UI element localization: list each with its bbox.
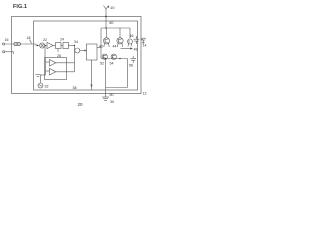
wire bottom loop horizontal: [106, 87, 128, 89]
ground GND1: [102, 97, 109, 100]
wire top bus: [101, 27, 130, 29]
filter F2: [63, 43, 69, 49]
reference source V1: [38, 75, 46, 88]
svg-text:56: 56: [129, 64, 133, 68]
svg-text:52: 52: [100, 62, 104, 66]
amplifier A1: [45, 42, 56, 48]
svg-text:44: 44: [113, 45, 117, 49]
svg-text:32: 32: [45, 85, 49, 89]
node supply/frame crossing dot: [105, 16, 107, 18]
node bus junction: [105, 27, 106, 28]
svg-text:18: 18: [27, 36, 31, 40]
mixer X1: [40, 43, 45, 48]
terminal T1 (supply input, top): [104, 6, 110, 10]
svg-text:16: 16: [5, 38, 9, 42]
svg-text:48: 48: [134, 48, 138, 52]
wire U1 bottom vertical: [91, 60, 93, 90]
battery B1 (inner left edge): [36, 75, 41, 77]
detector D1 (circle before block): [75, 48, 87, 53]
wire supply vertical: [105, 9, 107, 28]
node stem dot: [105, 58, 107, 60]
wire ground stem: [105, 59, 107, 98]
rail left vertical: [100, 28, 102, 59]
comparator A3: [46, 69, 75, 76]
wire U1 to rail: [97, 47, 101, 49]
transistor Q4: [102, 54, 107, 59]
transistor Q1: [103, 38, 109, 47]
svg-text:34: 34: [74, 40, 78, 44]
source M1 (two circles on input wire): [14, 42, 21, 45]
node second row junction: [119, 58, 121, 60]
wire stub Q1: [106, 28, 108, 38]
svg-text:54: 54: [110, 62, 114, 66]
node chain tap: [44, 45, 45, 46]
svg-text:20: 20: [78, 102, 84, 107]
wire chain input jog: [34, 44, 40, 46]
svg-text:14: 14: [143, 44, 147, 48]
filter F1: [56, 43, 62, 49]
block U1: [87, 44, 98, 60]
wire comp out vertical: [74, 46, 76, 72]
terminal IN2: [3, 51, 14, 54]
wire chain out: [69, 45, 75, 47]
arrowhead U1 bottom: [90, 85, 92, 88]
svg-text:10: 10: [110, 5, 115, 10]
wire second row: [101, 58, 128, 60]
wire F1-F2: [61, 45, 63, 47]
wire stub Q2: [119, 28, 121, 38]
svg-text:26: 26: [57, 54, 61, 58]
svg-text:40: 40: [109, 20, 114, 25]
node chain start: [37, 45, 38, 46]
wire comp input rail: [45, 58, 47, 75]
transistor Q2: [117, 38, 123, 47]
wire arrow 48: [121, 47, 134, 49]
capacitor C1 (right inner): [134, 36, 140, 44]
comparator block box 26: [45, 58, 67, 80]
svg-text:FIG.1: FIG.1: [13, 4, 27, 10]
node chain out: [74, 45, 75, 46]
lead line 18: [30, 40, 32, 44]
svg-text:12: 12: [143, 92, 147, 96]
comparator A2: [46, 60, 75, 67]
svg-text:38: 38: [73, 86, 77, 90]
wire stub Q3: [129, 28, 131, 39]
svg-text:46: 46: [130, 34, 134, 38]
transistor Q5: [111, 54, 116, 59]
svg-text:50: 50: [110, 93, 114, 97]
capacitor C2 external with ground: [141, 38, 146, 44]
wire tap down: [44, 46, 46, 59]
svg-text:24: 24: [60, 38, 64, 42]
outer enclosure box 20: [12, 17, 142, 94]
inner circuit box 40: [34, 21, 138, 90]
transistor Q3: [128, 39, 133, 47]
svg-text:30: 30: [110, 100, 114, 104]
wire F1 stub: [57, 49, 59, 53]
capacitor C3: [131, 56, 137, 63]
svg-text:22: 22: [43, 38, 47, 42]
wire right loop vertical: [127, 59, 129, 88]
terminal IN1: [3, 43, 34, 45]
